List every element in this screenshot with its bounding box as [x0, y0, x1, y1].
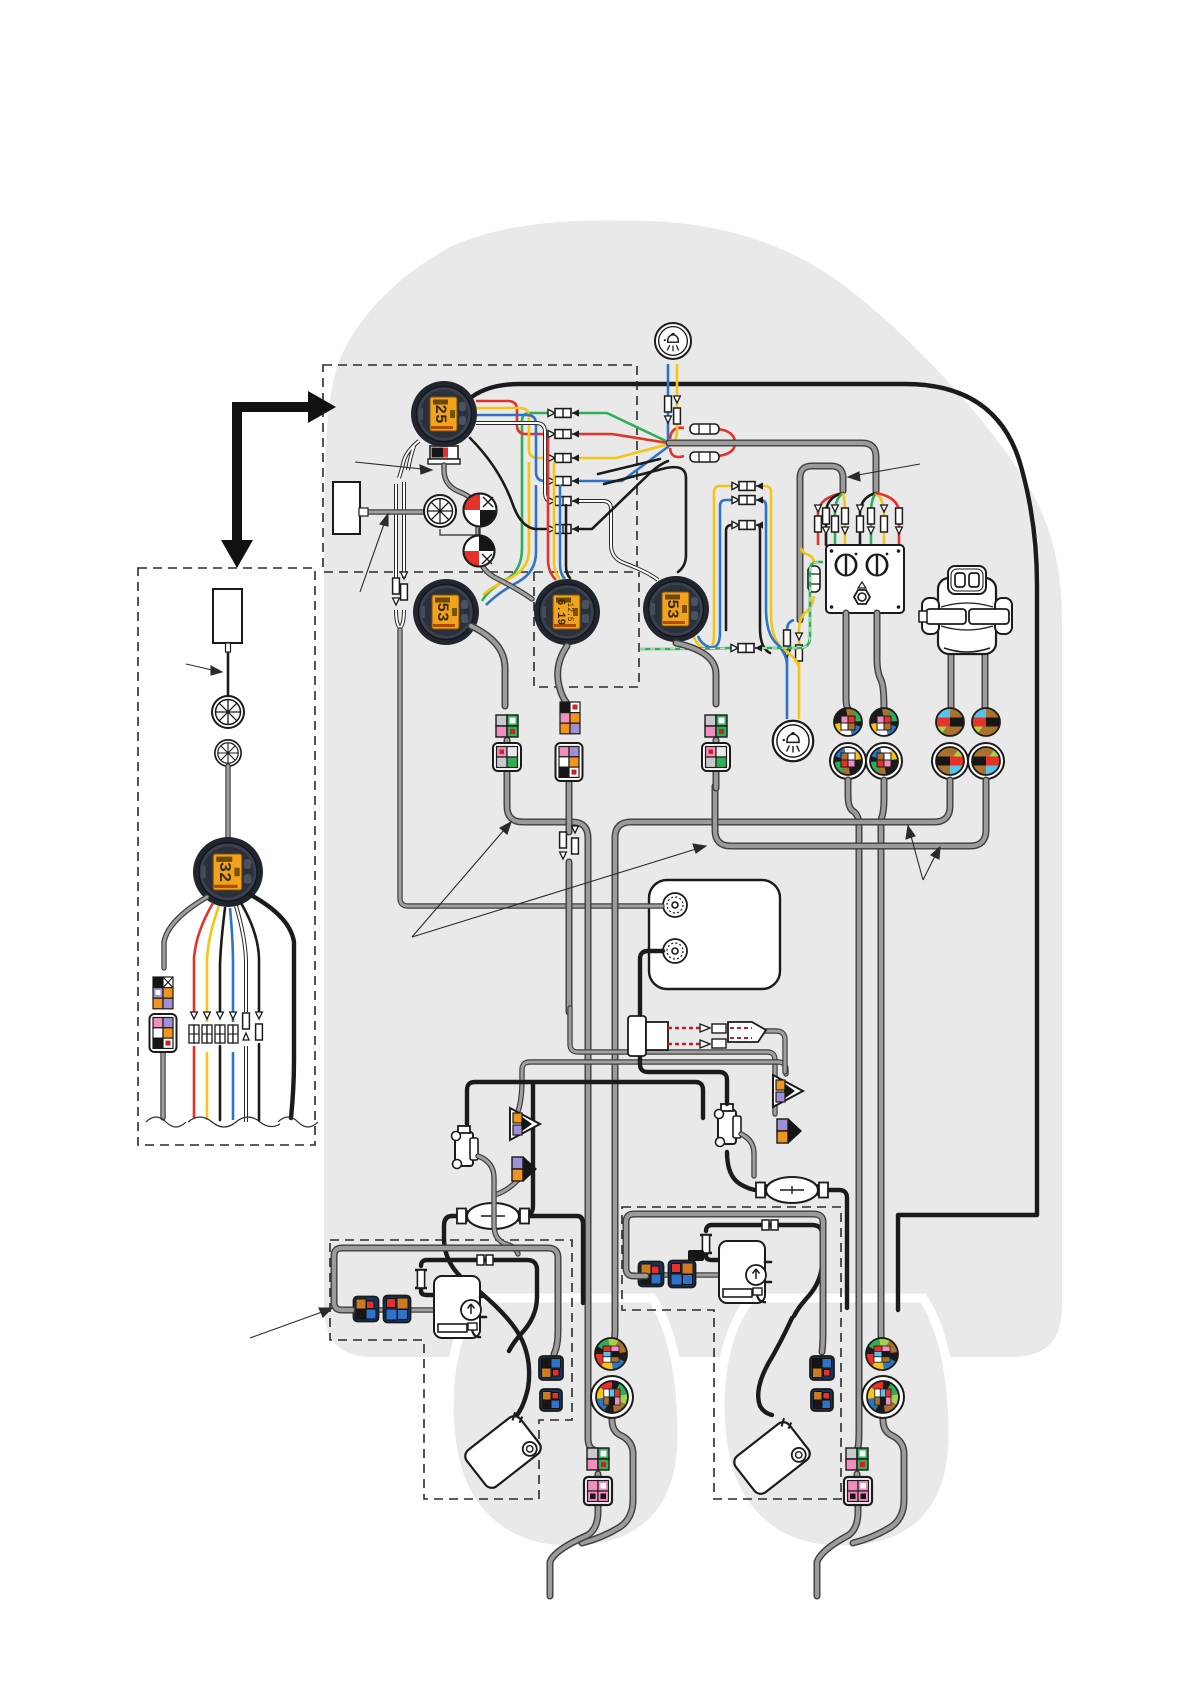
station connectors round [834, 708, 862, 736]
wire green row1 [482, 413, 668, 601]
dashed box: left sidebar detail [138, 568, 315, 1145]
inline fuse at 404,592 [401, 584, 408, 600]
multi gauge3 [534, 579, 600, 645]
horn (navigation light) top [655, 323, 691, 359]
inline fuse at 871,516 [868, 508, 875, 524]
pickup gray lead to gauge3 [444, 465, 532, 599]
connector block at 863,1459 [846, 1448, 868, 1470]
dashed box: main station console [323, 365, 637, 572]
sidebar gauge [193, 837, 263, 907]
connector block at 163,1033 [150, 1014, 177, 1052]
inline fuse at 860,524 [857, 516, 864, 532]
boat hull body [324, 220, 1062, 1357]
gauge3 feed wires [548, 438, 556, 580]
speed sensor twin lead [399, 441, 419, 478]
black bundle to gauge4 [598, 459, 686, 572]
wire white row5 [476, 423, 658, 580]
bullet connector at 747,500 [731, 496, 763, 505]
inline fuse at 799,653 [796, 645, 803, 661]
dashed box: single gauge option [534, 572, 639, 687]
tachometer gauge2 [413, 579, 479, 645]
inline fuse at 787,638 [784, 630, 791, 646]
bullet connector at 563,434 [547, 430, 579, 439]
bullet connector at 747,525 [731, 521, 763, 530]
bullet connector at 766,646 [730, 644, 762, 653]
oil tank assembly at 742,1272 [639, 1220, 823, 1316]
fuel line filter to bulb [467, 1082, 703, 1216]
ignition fan left [818, 493, 843, 545]
inline fuse at 884,524 [881, 516, 888, 532]
fuel filter [452, 1126, 479, 1169]
inline fuse at 668,404 [665, 396, 672, 412]
speedometer gauge [411, 381, 477, 447]
inline fuse at 845,516 [842, 508, 849, 524]
panel output cables [846, 613, 884, 709]
antenna lead [227, 643, 230, 700]
fan colored wires [194, 903, 213, 1118]
key switch 2 [867, 553, 889, 576]
green engine comms wire [640, 562, 823, 649]
speedometer pickup connector [428, 446, 460, 464]
connector block at 716,726 [705, 715, 727, 737]
round connector at 950,727 [936, 708, 964, 736]
connector block at 163,993 [153, 977, 173, 1009]
block chain to tip [550, 1474, 598, 1596]
round connector ringed at 846,765 [830, 743, 866, 779]
horn wires blue/yellow [668, 364, 669, 443]
dashed box: right oil tank / engine [622, 1207, 841, 1499]
svg-text:25: 25 [431, 404, 449, 423]
bullet connector at 563,481 [547, 477, 579, 486]
gauge2 chain down to left pod [471, 626, 594, 1450]
connector block at 551,1368 [539, 1356, 563, 1380]
fuel line to right bulb [757, 1190, 847, 1308]
right engine pod [720, 1298, 953, 1550]
battery supply line [444, 1216, 529, 1415]
inline fuse at 207,1030 [204, 1012, 211, 1019]
round connector at 877,727 [870, 708, 898, 736]
svg-text:53: 53 [663, 599, 681, 618]
round connector ringed at 877,765 [866, 743, 902, 779]
filter outlet hose [478, 1156, 518, 1254]
heavy black lead right [249, 894, 294, 1118]
engine round connector at 611,1354 [595, 1338, 627, 1370]
wire red row2 [476, 401, 668, 443]
water surface marks [146, 1117, 186, 1127]
round connector at 986,727 [972, 708, 1000, 736]
oil tank harness right [626, 1214, 823, 1352]
wire black row6 [470, 438, 668, 529]
wire yellow row3 [476, 408, 669, 595]
harness: remote pies to gauges [613, 780, 950, 1344]
flag connector at 788,1131 [777, 1118, 802, 1144]
connector block at 822,1400 [811, 1389, 833, 1411]
nested loop black [726, 525, 770, 653]
connector block at 570,718 [560, 702, 580, 734]
right battery lead [758, 1318, 792, 1415]
inline fuse at 835,524 [832, 516, 839, 532]
engine round connector ringed at 883,1397 [862, 1376, 904, 1418]
red fuse-holder loop wires [670, 428, 735, 457]
inline fuse at 259,1020 [256, 1012, 263, 1019]
triangle mark [858, 582, 866, 588]
horn2 (second station light) [773, 721, 813, 761]
paddle wheel tube [366, 509, 432, 514]
connector block at 507,757 [493, 743, 521, 771]
fuel main line with primer bulb [452, 1216, 583, 1303]
svg-text:12.5: 12.5 [565, 602, 574, 621]
bullet connector at 747,486 [731, 482, 763, 491]
round connector ringed at 986,765 [968, 743, 1004, 779]
bullet connector at 563,529 [547, 525, 579, 534]
connector block at 592,1459 [587, 1448, 609, 1470]
main gray trunk to ignition panel [669, 443, 876, 491]
fuel joint hose pair [570, 1008, 775, 1114]
sender lead down to tank [400, 630, 662, 906]
connector symbol crossed [424, 495, 456, 527]
engine round connector at 882,1354 [866, 1338, 898, 1370]
harness: left pies to right pod [848, 780, 859, 1448]
inline fuse at 396,586 [393, 578, 400, 594]
connector crossed 1 [212, 696, 244, 728]
connector block at 822,1368 [810, 1356, 834, 1380]
flag connector at 523,1169 [512, 1156, 537, 1182]
horn2 riser wires [787, 620, 794, 719]
round connector ringed at 950,765 [932, 743, 968, 779]
ignition fan right [860, 493, 876, 545]
inline fuse at 220,1024 [217, 1012, 224, 1019]
fuse holder pills [690, 424, 719, 462]
inline fuse at 818,524 [815, 516, 822, 532]
inline fuse at 194,1024 [191, 1012, 198, 1019]
left engine pod [449, 1298, 682, 1550]
lead to gauge [225, 766, 230, 840]
inline fuse at 899,516 [896, 508, 903, 524]
link bracket [440, 528, 479, 535]
connector symbol red/black quadrant [464, 494, 497, 527]
inline fuse at 233,1030 [230, 1012, 237, 1019]
svg-text:32: 32 [214, 862, 233, 882]
connector block at 551,1400 [540, 1389, 562, 1411]
connector block at 569,762 [556, 743, 583, 781]
connector crossed 2 [215, 740, 241, 766]
bullet connectors rows [547, 409, 579, 418]
dashed box: left oil tank / engine [330, 1240, 572, 1499]
wire blue row4 [476, 415, 669, 605]
speed sensor housing [333, 482, 360, 534]
inline fuse at 677,416 [674, 408, 681, 424]
fuel primer bulb at 493,1216 [457, 1203, 529, 1229]
inline fuse at 575,846 [572, 838, 579, 854]
second gray riser from horn area [800, 466, 843, 620]
bullet connector at 563,458 [547, 454, 579, 463]
inline fuse at 826,516 [823, 508, 830, 524]
svg-text:6.19: 6.19 [554, 599, 566, 625]
inline fuse at 246,1020 [243, 1013, 250, 1029]
nested loop yellow [693, 486, 799, 668]
fan: gray to blocks [164, 897, 207, 968]
gauge3 chain [558, 646, 569, 1012]
connector tab [688, 1250, 704, 1261]
flag connectors left [510, 1108, 540, 1140]
pie cable continuation [582, 1415, 633, 1543]
gauge connectors [496, 715, 518, 737]
speed sensor housing (detail) [213, 589, 242, 643]
connector symbol red/black quadrant 2 [464, 536, 495, 567]
nested loop blue [698, 500, 787, 664]
gauge4 [643, 576, 709, 642]
connector block at 716,757 [702, 743, 730, 771]
oil tank harness left [334, 1248, 558, 1354]
engine round connector ringed at 612,1397 [591, 1376, 633, 1418]
gauge4 chain [676, 643, 716, 788]
bullet connector at 563,501 [547, 497, 579, 506]
connector block at 866,1491 [844, 1477, 872, 1505]
fuel primer bulb at 789,1196 [756, 1177, 828, 1203]
svg-text:53: 53 [433, 602, 451, 621]
connector block at 595,1491 [584, 1477, 612, 1505]
inline fuse at 563,840 [560, 832, 567, 848]
flag connector at 787,1091 [773, 1075, 803, 1107]
